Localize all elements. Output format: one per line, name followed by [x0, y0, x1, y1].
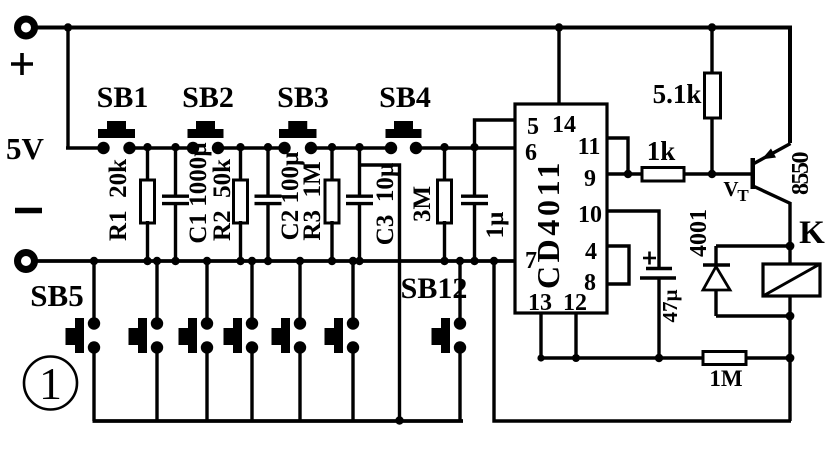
svg-text:SB1: SB1 [97, 81, 149, 114]
svg-text:4001: 4001 [686, 209, 712, 257]
svg-text:K: K [799, 215, 825, 251]
svg-text:SB4: SB4 [379, 81, 431, 114]
svg-text:13: 13 [528, 290, 552, 316]
svg-text:V: V [723, 177, 738, 201]
svg-text:SB12: SB12 [401, 272, 468, 305]
svg-text:R1 20k: R1 20k [105, 159, 132, 241]
svg-text:6: 6 [525, 140, 537, 166]
svg-text:1: 1 [39, 358, 62, 409]
svg-text:SB5: SB5 [30, 278, 83, 313]
svg-text:T: T [737, 186, 749, 205]
svg-text:10: 10 [578, 202, 602, 228]
svg-text:9: 9 [584, 166, 596, 192]
svg-text:47µ: 47µ [658, 289, 682, 322]
svg-text:C3 10µ: C3 10µ [372, 163, 399, 245]
svg-text:5V: 5V [6, 131, 45, 166]
svg-text:4: 4 [585, 239, 597, 265]
svg-text:8: 8 [584, 270, 596, 296]
svg-text:5.1k: 5.1k [653, 79, 702, 109]
svg-text:1µ: 1µ [482, 212, 509, 239]
svg-text:8550: 8550 [788, 152, 814, 196]
svg-text:7: 7 [525, 248, 537, 274]
svg-text:1M: 1M [709, 366, 743, 391]
svg-text:14: 14 [552, 112, 576, 138]
svg-text:SB3: SB3 [277, 81, 329, 114]
svg-text:11: 11 [578, 134, 601, 160]
svg-text:1k: 1k [647, 136, 676, 166]
svg-text:C1 1000µ: C1 1000µ [185, 142, 212, 243]
svg-text:SB2: SB2 [182, 81, 234, 114]
svg-text:3M: 3M [409, 186, 436, 222]
svg-text:5: 5 [527, 114, 539, 140]
svg-text:R2 50k: R2 50k [209, 159, 236, 241]
svg-text:R3 1M: R3 1M [299, 161, 326, 240]
